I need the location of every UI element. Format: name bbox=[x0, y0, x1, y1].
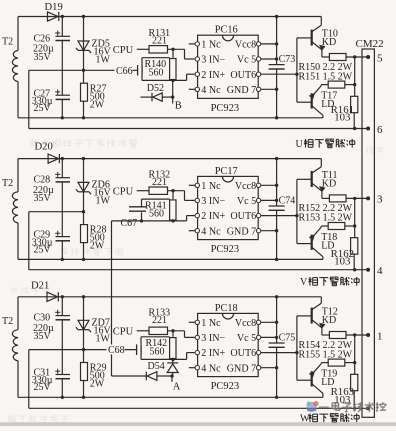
wire OUT to driver bases (block 1) bbox=[296, 38, 298, 102]
junction dot output node bbox=[353, 55, 356, 58]
transformer T2 winding (block 3) bbox=[2, 316, 18, 361]
svg-text:OUT6: OUT6 bbox=[230, 70, 256, 81]
node CPU input (block 2) bbox=[113, 186, 134, 197]
wire block2 left vertical from top wire to return line bbox=[17, 159, 19, 260]
svg-text:103: 103 bbox=[334, 112, 350, 124]
label R150 value bbox=[299, 62, 353, 73]
resistor R163 103 bbox=[331, 374, 358, 408]
pin 2 IN+ of PC18 bbox=[195, 348, 225, 359]
junction dot output node bbox=[353, 197, 356, 200]
wire CPU to R132 bbox=[137, 190, 149, 192]
svg-text:CPU: CPU bbox=[113, 327, 134, 338]
svg-text:35V: 35V bbox=[34, 193, 52, 204]
svg-text:CM22: CM22 bbox=[356, 38, 384, 50]
svg-text:2W: 2W bbox=[90, 99, 105, 110]
capacitor C31 electrolytic bbox=[32, 368, 70, 398]
wire R140 bottom edge bbox=[142, 74, 195, 80]
svg-text:221: 221 bbox=[152, 315, 167, 326]
capacitor C26 electrolytic bbox=[33, 17, 70, 96]
svg-text:25V: 25V bbox=[34, 382, 52, 393]
junction dot rail Vcc pin bbox=[275, 321, 278, 324]
resistor R155 1.5 2W bbox=[321, 359, 354, 366]
svg-text:PC16: PC16 bbox=[215, 25, 238, 36]
svg-text:C73: C73 bbox=[279, 54, 296, 65]
transistor T12 NPN driver bbox=[297, 297, 338, 335]
wire T11 emitter to R152 bbox=[322, 197, 329, 199]
svg-text:1 Nc: 1 Nc bbox=[201, 40, 221, 51]
watermark text bbox=[319, 402, 386, 412]
svg-text:1 Nc: 1 Nc bbox=[201, 181, 221, 192]
svg-text:V: V bbox=[300, 277, 308, 288]
svg-text:2 IN+: 2 IN+ bbox=[201, 70, 225, 81]
junction dot rail Vcc pin bbox=[275, 184, 278, 187]
svg-text:3 IN−: 3 IN− bbox=[201, 196, 225, 207]
pin 2 IN+ of PC17 bbox=[195, 211, 225, 222]
svg-text:3 IN−: 3 IN− bbox=[201, 333, 225, 344]
svg-text:T2: T2 bbox=[2, 37, 13, 48]
pin 3 IN&#8722; of PC17 bbox=[195, 196, 225, 207]
pin Vc 5 of PC17 bbox=[237, 196, 277, 207]
svg-text:4 Nc: 4 Nc bbox=[201, 85, 221, 96]
wire CPU to R133 bbox=[137, 330, 149, 332]
svg-text:Vcc8: Vcc8 bbox=[235, 318, 256, 329]
junction dot OUT / base rail bbox=[295, 214, 298, 217]
resistor R133 221 bbox=[149, 308, 171, 335]
pin Vcc8 of PC16 bbox=[235, 40, 277, 51]
capacitor C66 bbox=[115, 58, 170, 81]
pin Vcc8 of PC18 bbox=[235, 318, 277, 329]
svg-text:T2: T2 bbox=[2, 178, 13, 189]
junction dot rail Vc pin bbox=[275, 199, 278, 202]
junction dot R141 bottom bbox=[171, 219, 174, 222]
junction dot common rail / R163 bbox=[353, 407, 356, 410]
pin 1 Nc of PC17 bbox=[189, 181, 221, 192]
junction dot top wire / ZD6 bbox=[82, 157, 85, 160]
pin 4 Nc of PC17 bbox=[189, 226, 221, 237]
svg-text:PC923: PC923 bbox=[211, 381, 240, 392]
junction dot return / R29 bbox=[82, 396, 85, 399]
pin 1 Nc of PC16 bbox=[189, 40, 221, 51]
svg-text:A: A bbox=[173, 382, 181, 393]
resistor R161 103 bbox=[331, 96, 358, 128]
connector CM22 pin 6 bbox=[366, 124, 383, 136]
capacitor C67 bbox=[121, 199, 170, 229]
svg-text:221: 221 bbox=[152, 36, 167, 47]
junction dot bias node / R28 bbox=[82, 210, 85, 213]
pin GND 7 of PC17 bbox=[227, 226, 277, 237]
junction dot return / decoupling rail bbox=[275, 258, 278, 261]
transistor T10 NPN driver bbox=[297, 17, 338, 58]
junction dot common rail / R161 bbox=[353, 127, 356, 130]
svg-text:221: 221 bbox=[152, 177, 167, 188]
wire block1 top supply bbox=[18, 16, 321, 18]
capacitor C27 electrolytic bbox=[32, 88, 70, 118]
svg-text:D52: D52 bbox=[147, 83, 164, 94]
resistor R140 560 bbox=[145, 49, 177, 79]
wire Vcc decoupling rail (block 1) bbox=[276, 17, 278, 118]
svg-text:1W: 1W bbox=[96, 196, 111, 207]
svg-text:1: 1 bbox=[377, 330, 383, 342]
pin 1 Nc of PC18 bbox=[189, 318, 221, 329]
svg-text:C66: C66 bbox=[116, 66, 133, 77]
transistor T18 PNP driver bbox=[297, 226, 337, 259]
junction dot output node bbox=[353, 333, 356, 336]
junction dot return / C29 bbox=[61, 258, 64, 261]
junction dot R140 bottom bbox=[171, 79, 174, 82]
capacitor C74 decoupling bbox=[269, 195, 296, 210]
wire bias node down to common rail (block 2) bbox=[28, 212, 30, 270]
wire mid bias node (block 1) bbox=[29, 69, 138, 71]
node output rail down bbox=[354, 57, 356, 96]
wire CPU to R131 bbox=[137, 48, 149, 50]
junction dot R133 / R142 bbox=[171, 329, 174, 332]
junction dot common rail / R162 bbox=[353, 268, 356, 271]
label R154 value bbox=[299, 340, 353, 351]
diode clamp below R142 bbox=[167, 359, 178, 376]
junction dot top wire / C26 bbox=[61, 15, 64, 18]
svg-text:103: 103 bbox=[334, 256, 350, 268]
junction dot R132 / R141 bbox=[171, 189, 174, 192]
svg-text:3 IN−: 3 IN− bbox=[201, 55, 225, 66]
op-amp opto-coupler PC18 PC923 package outline bbox=[198, 303, 259, 392]
pin 4 Nc of PC18 bbox=[189, 363, 221, 374]
svg-text:D19: D19 bbox=[45, 2, 63, 13]
junction dot return / decoupling rail bbox=[275, 396, 278, 399]
wire bias node down to common rail (block 1) bbox=[28, 70, 30, 128]
svg-text:4: 4 bbox=[377, 265, 383, 277]
wire R131 to IN- pin bbox=[168, 49, 195, 59]
svg-text:35V: 35V bbox=[34, 331, 52, 342]
svg-text:KD: KD bbox=[322, 315, 336, 326]
pin OUT6 of PC17 bbox=[230, 211, 296, 222]
svg-text:6: 6 bbox=[377, 124, 383, 136]
junction dot R142 bottom bbox=[171, 358, 174, 361]
resistor R141 560 bbox=[145, 191, 176, 220]
wire T12 emitter to R154 bbox=[322, 334, 329, 336]
junction dot rail Vc pin bbox=[275, 336, 278, 339]
scan artifact faint bleed rows extra bbox=[8, 146, 384, 422]
node output rail down bbox=[354, 335, 356, 374]
svg-text:GND 7: GND 7 bbox=[227, 226, 256, 237]
resistor R132 221 bbox=[149, 170, 171, 195]
pin Vc 5 of PC18 bbox=[237, 333, 277, 344]
svg-text:Vc 5: Vc 5 bbox=[237, 333, 256, 344]
zener diode ZD6 16V 1W bbox=[76, 159, 112, 212]
svg-text:25V: 25V bbox=[34, 244, 52, 255]
pin 2 IN+ of PC16 bbox=[195, 70, 225, 81]
svg-text:1 Nc: 1 Nc bbox=[201, 318, 221, 329]
svg-text:1W: 1W bbox=[96, 54, 111, 65]
svg-text:3: 3 bbox=[377, 194, 383, 206]
connector CM22 pin 3 bbox=[366, 194, 383, 206]
connector CM22 pin 1 bbox=[366, 330, 382, 342]
capacitor C75 decoupling bbox=[269, 332, 296, 347]
resistor R152 2.2 2W bbox=[329, 195, 346, 202]
pin 3 IN&#8722; of PC18 bbox=[195, 333, 225, 344]
connector CM22 pin bbox=[366, 406, 370, 410]
scan artifact faint bleed rows bbox=[31, 139, 138, 147]
node A bbox=[170, 374, 181, 392]
junction dot rail Vcc pin bbox=[275, 42, 278, 45]
node B bbox=[171, 80, 182, 111]
junction dot top wire / C28 bbox=[61, 157, 64, 160]
diode D52 bbox=[141, 83, 173, 101]
wire mid bias node (block 2) bbox=[29, 211, 84, 213]
wire Vcc decoupling rail (block 2) bbox=[276, 159, 278, 260]
connector CM22 outline bbox=[356, 38, 384, 417]
svg-text:KD: KD bbox=[322, 179, 336, 190]
wire block3 left vertical from top wire to return line bbox=[17, 297, 19, 398]
wire R150 to connector pin bbox=[346, 56, 368, 58]
resistor R162 103 bbox=[331, 238, 358, 270]
resistor R150 2.2 2W bbox=[329, 54, 346, 61]
svg-text:Vcc8: Vcc8 bbox=[235, 40, 256, 51]
pin OUT6 of PC16 bbox=[230, 70, 296, 81]
junction dot rail top wire bbox=[275, 157, 278, 160]
wire R141 bottom edge to IN+ and to long link bbox=[112, 216, 195, 221]
svg-text:D54: D54 bbox=[148, 361, 165, 372]
svg-text:560: 560 bbox=[149, 67, 164, 78]
junction dot bias node / R29 bbox=[82, 348, 85, 351]
resistor R28 500 2W bbox=[81, 212, 107, 260]
resistor R27 500 2W bbox=[81, 70, 107, 118]
svg-text:5: 5 bbox=[377, 52, 383, 64]
capacitor C73 decoupling bbox=[269, 54, 296, 69]
svg-text:C75: C75 bbox=[279, 332, 296, 343]
label R153 value bbox=[299, 213, 353, 224]
junction dot top wire / C30 bbox=[61, 295, 64, 298]
capacitor C29 electrolytic bbox=[32, 230, 70, 260]
junction dot OUT / base rail bbox=[295, 351, 298, 354]
junction dot return / C27 bbox=[61, 116, 64, 119]
resistor R151 1.5 2W bbox=[321, 81, 354, 88]
svg-text:35V: 35V bbox=[34, 52, 52, 63]
label R152 value bbox=[299, 203, 353, 214]
svg-text:C68: C68 bbox=[108, 345, 125, 356]
pin GND 7 of PC16 bbox=[227, 85, 277, 96]
wire OUT to driver bases (block 3) bbox=[296, 316, 298, 380]
junction dot rail Vc pin bbox=[275, 57, 278, 60]
capacitor C28 electrolytic bbox=[33, 159, 70, 237]
junction dot rail GND pin bbox=[275, 366, 278, 369]
scan artifact bottom band bbox=[0, 422, 396, 426]
junction dot output node / R155 bbox=[353, 361, 356, 364]
zener diode ZD5 16V 1W bbox=[76, 17, 112, 71]
wire T10 emitter to R150 bbox=[322, 56, 329, 58]
connector CM22 pin 5 bbox=[366, 52, 383, 64]
svg-text:PC923: PC923 bbox=[211, 244, 240, 255]
svg-text:2W: 2W bbox=[90, 241, 105, 252]
svg-text:PC18: PC18 bbox=[215, 303, 238, 314]
net label V lower-arm pulse bbox=[300, 277, 359, 288]
node output rail down bbox=[354, 198, 356, 237]
diode D21 bbox=[31, 280, 58, 301]
net label W lower-arm pulse bbox=[300, 413, 359, 424]
wire supply return line (block 2) bbox=[18, 258, 323, 260]
diode D20 bbox=[35, 141, 60, 163]
op-amp opto-coupler PC17 PC923 package outline bbox=[198, 166, 259, 255]
svg-text:PC17: PC17 bbox=[215, 166, 238, 177]
wire mid bias node (block 3) bbox=[29, 349, 137, 351]
node CPU input (block 3) bbox=[113, 327, 134, 338]
junction dot top wire / ZD5 bbox=[82, 15, 85, 18]
wire supply return line (block 1) bbox=[18, 117, 323, 119]
junction dot C67 bottom bbox=[140, 219, 143, 222]
svg-text:KD: KD bbox=[322, 37, 336, 48]
wire R154 to connector pin bbox=[346, 334, 368, 336]
svg-text:Vc 5: Vc 5 bbox=[237, 55, 256, 66]
diode D19 bbox=[45, 2, 63, 21]
transistor T17 PNP driver bbox=[297, 85, 337, 118]
zener diode ZD7 16V 1W bbox=[76, 297, 112, 350]
wire common rail to connector (block 2) bbox=[29, 269, 368, 271]
label R151 value bbox=[299, 71, 353, 82]
svg-text:560: 560 bbox=[149, 209, 164, 220]
op-amp opto-coupler PC16 PC923 package outline bbox=[198, 25, 259, 114]
capacitor C30 electrolytic bbox=[33, 297, 70, 375]
svg-text:U: U bbox=[296, 139, 304, 150]
resistor R131 221 bbox=[149, 28, 171, 53]
wire supply return line (block 3) bbox=[18, 396, 323, 398]
svg-text:CPU: CPU bbox=[113, 45, 134, 56]
svg-text:B: B bbox=[175, 101, 182, 112]
transistor T19 PNP driver bbox=[297, 363, 337, 398]
wire R142 bottom edge bbox=[141, 353, 195, 360]
junction dot return / C31 bbox=[61, 396, 64, 399]
svg-text:2 IN+: 2 IN+ bbox=[201, 211, 225, 222]
svg-text:C67: C67 bbox=[121, 218, 138, 229]
junction dot return / R27 bbox=[82, 116, 85, 119]
svg-text:Vcc8: Vcc8 bbox=[235, 181, 256, 192]
junction dot rail top wire bbox=[275, 295, 278, 298]
pin Vc 5 of PC16 bbox=[237, 55, 277, 66]
pin 4 Nc of PC16 bbox=[189, 85, 221, 96]
wire bias node down to common rail (block 3) bbox=[28, 350, 30, 409]
wire Vcc decoupling rail (block 3) bbox=[276, 297, 278, 398]
svg-text:GND 7: GND 7 bbox=[227, 363, 256, 374]
svg-text:CPU: CPU bbox=[113, 186, 134, 197]
net label U lower-arm pulse bbox=[296, 139, 355, 150]
junction dot R131 / R140 bbox=[171, 48, 174, 51]
resistor R29 500 2W bbox=[81, 350, 107, 398]
svg-text:Vc 5: Vc 5 bbox=[237, 196, 256, 207]
junction dot output node / R151 bbox=[353, 83, 356, 86]
wire block2 top supply bbox=[18, 158, 321, 160]
svg-text:4 Nc: 4 Nc bbox=[201, 363, 221, 374]
pin 3 IN&#8722; of PC16 bbox=[195, 55, 225, 66]
node CPU input (block 1) bbox=[113, 45, 134, 56]
pin Vcc8 of PC17 bbox=[235, 181, 277, 192]
watermark logo bbox=[306, 401, 318, 412]
capacitor C68 bbox=[107, 337, 170, 360]
wire R133 to IN- pin bbox=[168, 331, 195, 338]
transformer T2 winding (block 1) bbox=[2, 37, 18, 82]
wire block3 top supply bbox=[18, 296, 321, 298]
pin GND 7 of PC18 bbox=[227, 363, 277, 374]
svg-text:C74: C74 bbox=[279, 195, 296, 206]
junction dot bias node / R27 bbox=[82, 69, 85, 72]
svg-text:560: 560 bbox=[150, 346, 165, 357]
connector CM22 pin 4 bbox=[366, 265, 383, 277]
transistor T11 NPN driver bbox=[297, 159, 338, 199]
label R155 value bbox=[299, 349, 353, 360]
svg-text:25V: 25V bbox=[34, 103, 52, 114]
junction dot return / decoupling rail bbox=[275, 116, 278, 119]
junction dot return / R28 bbox=[82, 258, 85, 261]
transformer T2 winding (block 2) bbox=[2, 178, 18, 223]
wire common rail to connector (block 3) bbox=[29, 407, 368, 409]
junction dot rail top wire bbox=[275, 15, 278, 18]
svg-text:T2: T2 bbox=[2, 316, 13, 327]
svg-text:2W: 2W bbox=[90, 379, 105, 390]
junction dot rail GND pin bbox=[275, 88, 278, 91]
pin OUT6 of PC18 bbox=[230, 348, 296, 359]
diode D54 bbox=[112, 361, 173, 381]
wire OUT to driver bases (block 2) bbox=[296, 179, 298, 243]
wire R152 to connector pin bbox=[346, 197, 368, 199]
svg-text:PC923: PC923 bbox=[211, 103, 240, 114]
wire R132 to IN- pin bbox=[168, 191, 195, 201]
wire link from R141 bottom node down to D54 bbox=[111, 221, 113, 376]
resistor R153 1.5 2W bbox=[321, 223, 354, 230]
junction dot top wire / ZD7 bbox=[82, 295, 85, 298]
junction dot output node / R153 bbox=[353, 224, 356, 227]
resistor R154 2.2 2W bbox=[329, 332, 346, 339]
svg-text:OUT6: OUT6 bbox=[230, 348, 256, 359]
wire common rail to connector (block 1) bbox=[29, 128, 368, 130]
svg-text:4 Nc: 4 Nc bbox=[201, 226, 221, 237]
resistor R142 560 bbox=[146, 331, 177, 359]
wire block1 left vertical from top wire to return line bbox=[17, 17, 19, 118]
junction dot rail GND pin bbox=[275, 229, 278, 232]
svg-text:OUT6: OUT6 bbox=[230, 211, 256, 222]
svg-text:GND 7: GND 7 bbox=[227, 85, 256, 96]
svg-text:2 IN+: 2 IN+ bbox=[201, 348, 225, 359]
junction dot OUT / base rail bbox=[295, 73, 298, 76]
svg-text:1W: 1W bbox=[96, 334, 111, 345]
